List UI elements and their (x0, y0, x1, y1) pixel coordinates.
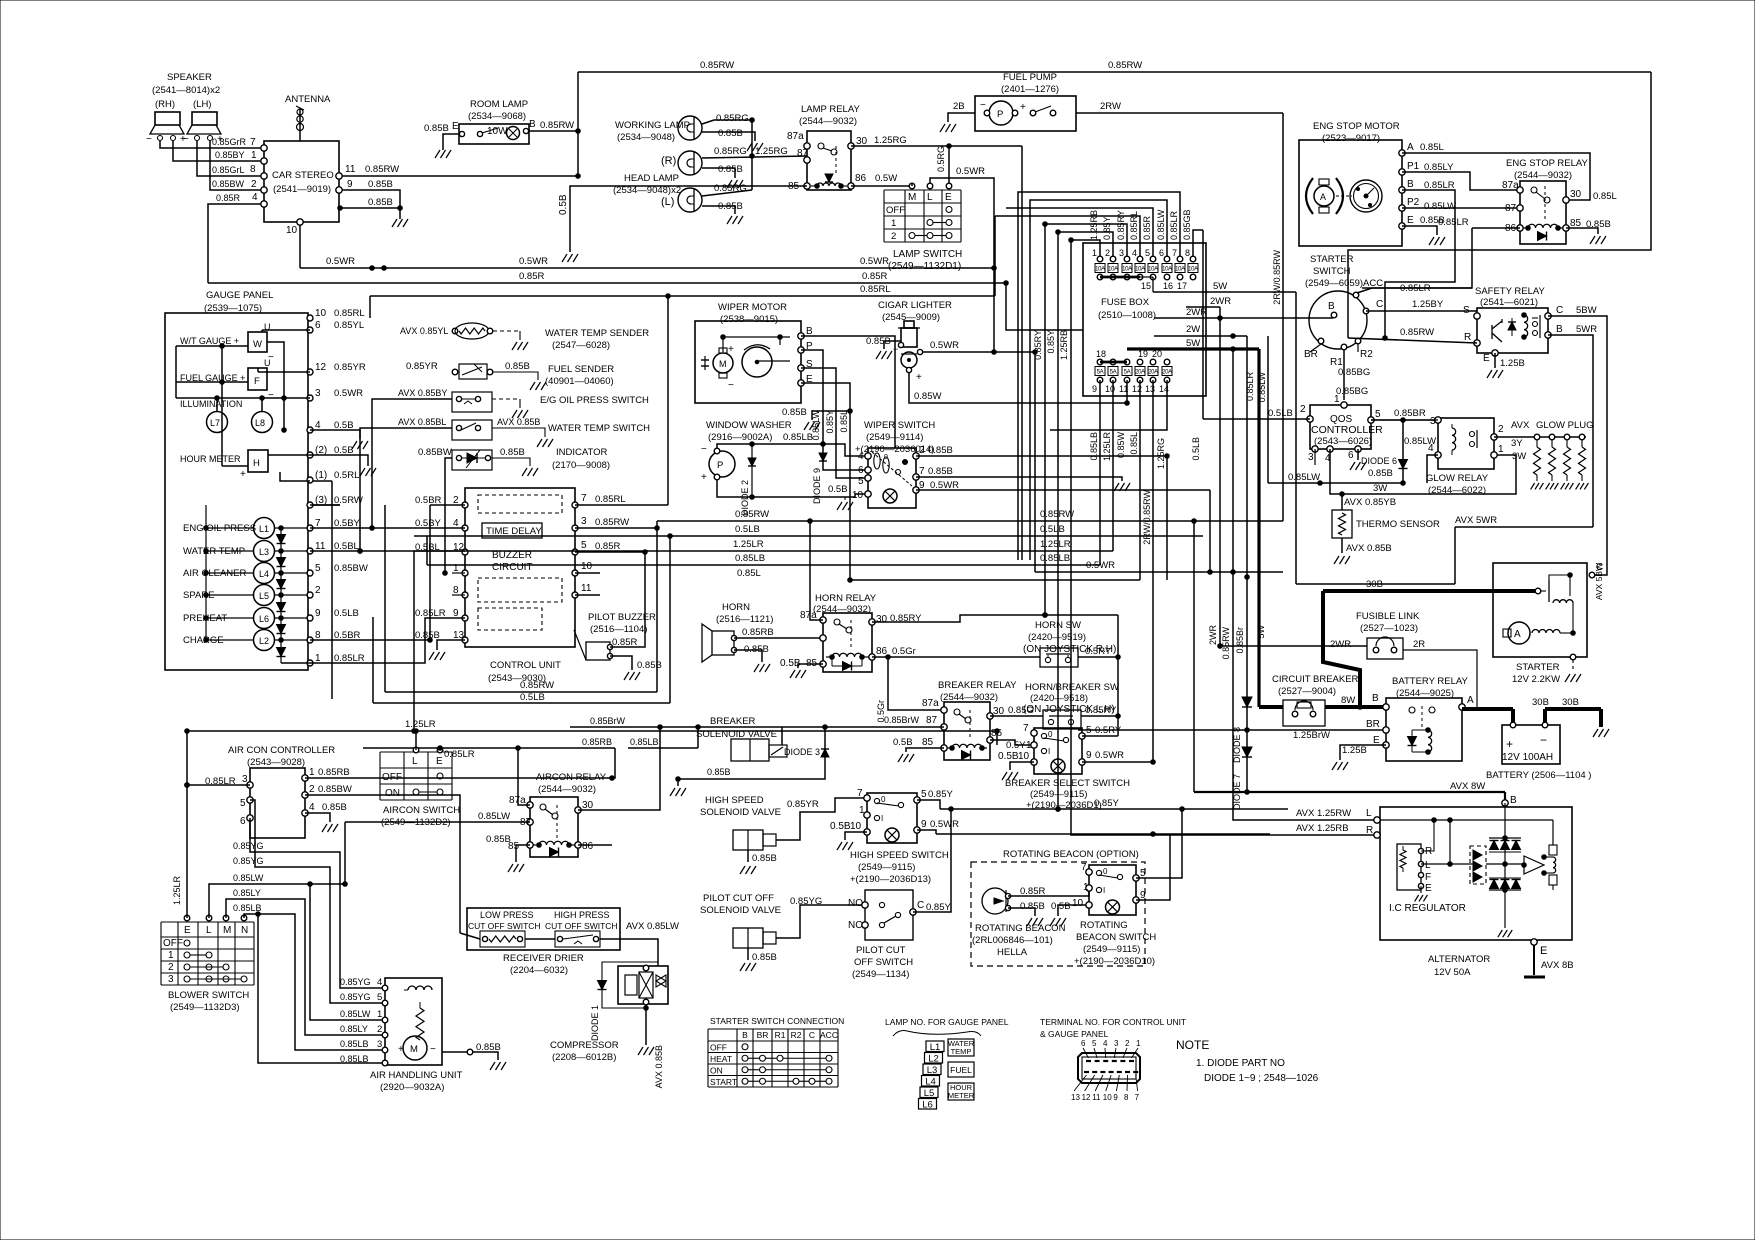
svg-text:(2541—6021): (2541—6021) (1480, 297, 1538, 308)
svg-text:0.85YL: 0.85YL (334, 320, 364, 331)
wire wiper sw 7 0.85B gnd (916, 477, 1130, 491)
svg-text:86: 86 (991, 728, 1003, 739)
svg-text:9: 9 (1092, 384, 1097, 394)
svg-text:0.85RG: 0.85RG (714, 183, 747, 194)
svg-text:0.85YR: 0.85YR (787, 799, 819, 810)
wire esm P1 0.85LY (1402, 172, 1520, 190)
svg-text:0.85RW: 0.85RW (365, 164, 399, 175)
svg-text:AVX: AVX (1511, 420, 1530, 431)
svg-text:−: − (430, 1044, 436, 1055)
svg-text:E: E (1425, 883, 1432, 894)
rotating beacon option box (971, 849, 1145, 966)
svg-text:C: C (917, 900, 924, 911)
svg-text:(2208—6012B): (2208—6012B) (552, 1052, 616, 1063)
svg-text:2B: 2B (953, 101, 965, 112)
qos controller U-qos (1310, 394, 1383, 449)
svg-text:M: M (908, 192, 916, 203)
svg-text:12: 12 (1082, 1093, 1091, 1102)
svg-text:2: 2 (315, 585, 321, 596)
svg-text:−: − (1540, 733, 1547, 747)
svg-text:0.85BY: 0.85BY (215, 150, 245, 160)
svg-text:5BW: 5BW (1576, 305, 1597, 316)
wire qos 3 stub (1314, 449, 1316, 465)
svg-text:9: 9 (921, 819, 927, 830)
wire vertical 2WR right (1208, 307, 1220, 646)
svg-text:L: L (1425, 860, 1431, 871)
svg-text:10W: 10W (487, 126, 508, 137)
ahu pins (340, 977, 388, 1066)
svg-text:(2544—9032): (2544—9032) (1514, 170, 1572, 181)
svg-text:0.85BW: 0.85BW (334, 563, 368, 574)
wire horn 0.85B gnd (734, 644, 770, 672)
svg-text:10A: 10A (1175, 267, 1185, 273)
svg-text:0.5B: 0.5B (828, 484, 848, 495)
svg-text:5: 5 (240, 798, 246, 809)
svg-text:0.85RW: 0.85RW (595, 517, 629, 528)
diode 7 (1232, 747, 1252, 810)
wire fuse9 out (1099, 380, 1101, 565)
svg-text:4: 4 (309, 802, 315, 813)
wire wiper P 0.85LW (801, 350, 868, 470)
svg-text:I.C REGULATOR: I.C REGULATOR (1389, 903, 1466, 914)
wire cigar 0.5WR (917, 340, 1035, 355)
wire blower N 0.85LB (233, 903, 385, 1050)
svg-text:30: 30 (1570, 189, 1582, 200)
svg-text:87: 87 (1505, 203, 1517, 214)
svg-text:11: 11 (581, 583, 592, 594)
wire oil press to L1 (370, 399, 452, 530)
svg-text:5WR: 5WR (1576, 324, 1597, 335)
control unit left pins (415, 495, 468, 643)
horn breaker sw U-hb-sw (1023, 682, 1119, 729)
rotating beacon captions (972, 920, 1156, 967)
wire high speed solenoid 0.85B gnd (740, 850, 777, 874)
svg-text:(2534—9048): (2534—9048) (617, 132, 675, 143)
wire AVX 8W (1192, 519, 1517, 807)
svg-text:AVX 0.85LW: AVX 0.85LW (626, 921, 679, 932)
svg-text:12V 2.2KW: 12V 2.2KW (1512, 674, 1560, 685)
wire 0.85R bus (208, 271, 1083, 330)
head lamp L (661, 188, 702, 212)
svg-text:B: B (742, 1030, 748, 1040)
alternator interior (1380, 803, 1557, 937)
wire fuse5 feed (1004, 208, 1153, 285)
svg-text:WINDOW WASHER: WINDOW WASHER (706, 420, 792, 431)
receiver drier U-drier (467, 908, 620, 950)
svg-text:−: − (980, 100, 986, 111)
svg-text:4: 4 (1132, 248, 1137, 258)
wire drier 0.85BW in (460, 933, 480, 939)
wire y748 line (363, 725, 1247, 760)
svg-text:10A: 10A (1095, 267, 1105, 273)
wire aircon 5 0.85YG (233, 800, 385, 1003)
wire breaker select 5 (1082, 735, 1118, 737)
svg-text:(2549—9114): (2549—9114) (866, 432, 923, 443)
wire vertical 0.85LW fuse right (1245, 336, 1268, 483)
svg-text:WIPER MOTOR: WIPER MOTOR (718, 302, 787, 313)
svg-text:HOUR METER: HOUR METER (180, 454, 241, 464)
svg-text:DIODE 9: DIODE 9 (812, 468, 822, 504)
svg-text:0: 0 (1048, 730, 1053, 739)
water temp switch (398, 417, 650, 447)
circuit breaker U-cb (1272, 674, 1359, 726)
svg-text:0.5LB: 0.5LB (1040, 524, 1065, 535)
lamp switch caption (888, 249, 962, 272)
svg-text:AVX 1.25RB: AVX 1.25RB (1296, 823, 1349, 834)
svg-text:0.85LB: 0.85LB (340, 1039, 369, 1049)
svg-text:2: 2 (1300, 404, 1306, 415)
svg-text:0.5B: 0.5B (998, 751, 1019, 762)
svg-text:85: 85 (922, 737, 934, 748)
alternator caption (1428, 954, 1490, 978)
wire room lamp B 0.85RW (529, 119, 578, 131)
battery relay U-batrelay (1366, 676, 1474, 761)
svg-text:L1: L1 (259, 524, 269, 534)
svg-text:0.85RL: 0.85RL (860, 284, 891, 295)
svg-text:0.85B: 0.85B (866, 336, 891, 347)
fuel sender (406, 361, 614, 390)
pilot cut off solenoid valve (700, 893, 781, 948)
svg-text:0.85RY: 0.85RY (1085, 705, 1117, 716)
svg-text:0.85YG: 0.85YG (340, 992, 371, 1002)
svg-text:10: 10 (1072, 898, 1084, 909)
svg-text:0.85BW: 0.85BW (212, 179, 245, 189)
wire esm P2 0.85LW (1402, 207, 1520, 209)
control unit U-control (465, 488, 575, 684)
svg-text:2: 2 (891, 231, 896, 242)
svg-text:0.85BW: 0.85BW (318, 784, 352, 795)
wire beacon 0.85R (1008, 886, 1089, 897)
svg-text:M: M (223, 925, 231, 936)
svg-text:AVX 0.85YB: AVX 0.85YB (1344, 497, 1396, 508)
blower switch caption (168, 990, 249, 1013)
wire fuse right 2WR starter B (1154, 307, 1333, 320)
wire esr 86 0.85LR (1362, 217, 1520, 288)
svg-text:10A: 10A (1188, 267, 1198, 273)
svg-text:0.5WR: 0.5WR (930, 819, 959, 830)
wire horn relay 30 0.85RY (872, 613, 1118, 736)
svg-text:1.25LR: 1.25LR (733, 539, 764, 550)
gauge panel U-gauge (165, 290, 308, 670)
wire qos 6 gnd (1350, 449, 1393, 479)
svg-text:DIODE 6: DIODE 6 (1361, 456, 1397, 466)
svg-text:BREAKER: BREAKER (710, 716, 756, 727)
svg-text:R: R (1464, 332, 1471, 343)
diode 2 (740, 444, 756, 516)
wire fuse2 feed (1056, 230, 1113, 256)
wire fuse4 feed (995, 216, 1140, 256)
wire vertical 1.25RB mid (1059, 238, 1377, 835)
svg-text:H: H (253, 458, 260, 469)
svg-text:0.5RY: 0.5RY (1085, 646, 1112, 657)
svg-text:SOLENOID VALVE: SOLENOID VALVE (696, 729, 777, 740)
svg-text:12V 100AH: 12V 100AH (1502, 752, 1553, 763)
svg-text:0.5WR: 0.5WR (1086, 560, 1115, 571)
svg-text:OFF: OFF (886, 205, 905, 216)
svg-text:L: L (1366, 808, 1372, 819)
wire beacon sw 5 (1136, 809, 1182, 878)
wire starter E dashed gnd (1565, 660, 1581, 682)
wire aircon relay 87a (518, 748, 530, 805)
svg-text:5A: 5A (1124, 370, 1131, 376)
svg-text:ON: ON (385, 788, 400, 799)
fuel gauge (180, 358, 274, 401)
svg-text:5: 5 (1145, 248, 1150, 258)
svg-text:ROOM LAMP: ROOM LAMP (470, 99, 528, 110)
wire bus 0.85L (737, 568, 1140, 582)
note (1176, 1038, 1319, 1084)
svg-text:STARTER: STARTER (1310, 254, 1354, 265)
svg-text:(2516—1104): (2516—1104) (590, 624, 647, 635)
svg-text:E: E (1407, 215, 1414, 226)
wire aircon 6 0.85YG (233, 818, 385, 988)
svg-text:0.85RW: 0.85RW (520, 680, 554, 691)
svg-text:0.85B: 0.85B (505, 361, 530, 372)
wire horn relay 85 gnd (790, 664, 823, 678)
svg-text:(L): (L) (661, 196, 674, 208)
svg-text:BEACON SWITCH: BEACON SWITCH (1076, 932, 1156, 943)
svg-text:2RW: 2RW (1100, 101, 1121, 112)
svg-text:3Y: 3Y (1511, 438, 1523, 449)
thermo sensor (1332, 494, 1440, 564)
compressor caption (550, 1040, 619, 1063)
wire speaker 0.85BY pin1 (173, 141, 267, 164)
wire fusible link right 2R (1403, 650, 1477, 709)
horn sw U-horn-sw (1023, 620, 1116, 667)
wire stereo 0.85B ground (338, 197, 408, 227)
svg-text:I: I (881, 814, 883, 823)
wire wiper B (801, 336, 895, 448)
svg-text:L3: L3 (927, 1065, 938, 1076)
svg-text:7: 7 (250, 137, 256, 148)
aircon controller pins (205, 767, 352, 827)
svg-text:0.85RW: 0.85RW (700, 60, 734, 71)
wire bus 1.25LR long (185, 719, 1000, 745)
svg-text:0.85YR: 0.85YR (334, 362, 366, 373)
wire beacon sw 9 (1136, 834, 1170, 900)
svg-text:INDICATOR: INDICATOR (556, 447, 608, 458)
wire breaker relay 87 0.85BrW (570, 715, 944, 727)
svg-text:AVX 0.85B: AVX 0.85B (654, 1045, 664, 1088)
wire horn 0.85RB (734, 627, 823, 638)
wire breaker relay 85 0.5B gnd (893, 737, 944, 762)
svg-text:0.85BrW: 0.85BrW (884, 715, 920, 725)
svg-text:(2RL006846—101): (2RL006846—101) (972, 935, 1053, 946)
svg-text:5W: 5W (1213, 281, 1227, 292)
svg-text:1: 1 (168, 950, 174, 961)
svg-text:0.85LR: 0.85LR (1438, 217, 1469, 228)
wire blower E 1.25LR (172, 731, 189, 918)
fusible link U-fl (1330, 611, 1425, 659)
wire AVX 5WR (1296, 515, 1593, 584)
svg-text:ALTERNATOR: ALTERNATOR (1428, 954, 1490, 965)
svg-text:TERMINAL NO. FOR CONTROL UNIT: TERMINAL NO. FOR CONTROL UNIT (1040, 1017, 1186, 1027)
svg-text:0.85B: 0.85B (718, 201, 743, 212)
svg-text:GAUGE PANEL: GAUGE PANEL (206, 290, 273, 301)
svg-text:2: 2 (1125, 1039, 1130, 1048)
svg-text:0.85B: 0.85B (424, 123, 449, 134)
wire fuel pump 2B gnd (940, 101, 975, 132)
svg-text:4: 4 (377, 977, 382, 988)
wire speaker 0.85GrL pin8 (197, 141, 267, 179)
svg-text:SWITCH: SWITCH (1313, 266, 1351, 277)
svg-text:RECEIVER DRIER: RECEIVER DRIER (503, 953, 584, 964)
svg-text:FUSE BOX: FUSE BOX (1101, 297, 1150, 308)
wire cigar 0.85W (909, 372, 1127, 403)
svg-text:13: 13 (1071, 1093, 1080, 1102)
wire speaker 0.85BW pin2 (210, 141, 267, 193)
svg-text:(2420—9518): (2420—9518) (1030, 693, 1088, 704)
svg-text:0.5WR: 0.5WR (956, 166, 985, 177)
svg-text:0.85LY: 0.85LY (340, 1024, 368, 1034)
wire aircon 2 0.85BW (305, 795, 460, 933)
svg-text:ROTATING BEACON (OPTION): ROTATING BEACON (OPTION) (1003, 849, 1139, 860)
control unit right pins (572, 493, 629, 598)
svg-text:0.85B: 0.85B (486, 834, 511, 845)
wire fuse10 out (1112, 380, 1114, 551)
svg-text:L5: L5 (259, 591, 269, 601)
wire fuse14 out (1050, 380, 1167, 430)
svg-text:PILOT CUT OFF: PILOT CUT OFF (703, 893, 774, 904)
svg-text:0.85LB: 0.85LB (630, 737, 659, 747)
svg-text:(2538—9015): (2538—9015) (720, 314, 778, 325)
svg-text:0.5LB: 0.5LB (1268, 408, 1293, 419)
svg-text:+: + (1506, 737, 1513, 751)
wire esm A 0.85L loop (1402, 153, 1617, 202)
wire horn relay 86 0.5Gr (872, 646, 1040, 659)
svg-text:TEMP: TEMP (951, 1047, 972, 1056)
svg-text:30: 30 (856, 136, 868, 147)
wire vertical 0.85RY mid (1033, 224, 1047, 617)
gauge lamp diode chain (277, 528, 311, 663)
svg-text:0.5B: 0.5B (893, 737, 913, 748)
svg-text:0.5LB: 0.5LB (334, 608, 359, 619)
svg-text:1: 1 (1083, 882, 1089, 893)
svg-text:0.5Gr: 0.5Gr (892, 646, 916, 657)
svg-text:GLOW PLUG: GLOW PLUG (1536, 420, 1594, 431)
svg-text:L8: L8 (255, 418, 265, 428)
lamp switch U-lamp-switch (884, 183, 961, 242)
svg-text:0.85B: 0.85B (782, 407, 807, 418)
svg-text:16: 16 (1163, 281, 1173, 291)
svg-text:0.5LB: 0.5LB (735, 524, 760, 535)
wire control 9 0.85LR (310, 618, 465, 663)
svg-text:0.85LB: 0.85LB (1040, 553, 1070, 564)
eng stop motor pins (1399, 142, 1456, 229)
svg-text:0.85RW: 0.85RW (1108, 60, 1142, 71)
svg-text:10: 10 (315, 308, 327, 319)
wire 30B thick starter (1323, 579, 1536, 707)
ahu caption (370, 1070, 463, 1093)
svg-text:3: 3 (1114, 1039, 1119, 1048)
svg-text:M: M (719, 359, 727, 369)
svg-text:6: 6 (1348, 450, 1354, 461)
svg-text:LAMP RELAY: LAMP RELAY (801, 104, 860, 115)
e/g oil press switch (398, 388, 649, 418)
svg-text:0.5WR: 0.5WR (519, 256, 548, 267)
wire 0.5WR bus (300, 256, 996, 354)
svg-text:N: N (241, 925, 248, 936)
svg-text:A: A (1514, 629, 1521, 640)
wire drier link (525, 938, 555, 940)
svg-text:DIODE 1: DIODE 1 (590, 1005, 600, 1041)
air handling unit U-ahu (385, 978, 442, 1065)
wire buzzer 0.85B gnd (610, 656, 662, 680)
svg-text:+: + (398, 1044, 404, 1055)
svg-text:87: 87 (926, 715, 938, 726)
wire hb sw 0.85RY (1081, 705, 1120, 718)
svg-text:AVX 1.25RW: AVX 1.25RW (1296, 808, 1351, 819)
svg-text:B: B (1556, 324, 1563, 335)
wire 0.85LB bottom (256, 912, 385, 1063)
wire washer plus 0.5B (717, 480, 868, 510)
svg-text:ROTATING: ROTATING (1080, 920, 1128, 931)
svg-text:11: 11 (1092, 1093, 1101, 1102)
wire qos diode6 (1361, 420, 1436, 485)
svg-text:1.25B: 1.25B (1500, 358, 1525, 369)
svg-text:CIGAR LIGHTER: CIGAR LIGHTER (878, 300, 952, 311)
wire control 12 row (310, 549, 465, 554)
wire safety R 0.85RW (1348, 327, 1477, 343)
antenna (285, 94, 331, 141)
svg-text:BATTERY (2506—1104 ): BATTERY (2506—1104 ) (1486, 770, 1591, 781)
svg-text:STARTER: STARTER (1516, 662, 1560, 673)
svg-text:BR: BR (757, 1030, 769, 1040)
svg-text:OFF SWITCH: OFF SWITCH (854, 957, 913, 968)
svg-text:CUT OFF SWITCH: CUT OFF SWITCH (468, 921, 541, 931)
svg-text:7: 7 (1135, 1093, 1140, 1102)
svg-text:0.5WR: 0.5WR (326, 256, 355, 267)
svg-text:2: 2 (251, 179, 257, 190)
svg-text:20A: 20A (1135, 370, 1145, 376)
svg-text:9: 9 (1086, 750, 1092, 761)
svg-text:E: E (436, 756, 443, 767)
svg-text:5A: 5A (1097, 370, 1104, 376)
fuse box U-fusebox (1083, 243, 1206, 396)
svg-text:0.85W: 0.85W (914, 391, 941, 402)
svg-text:0.85LB: 0.85LB (735, 553, 765, 564)
starter caption (1512, 662, 1560, 685)
svg-text:3: 3 (242, 774, 248, 785)
svg-text:R1: R1 (775, 1030, 786, 1040)
svg-text:3: 3 (1308, 452, 1314, 463)
svg-text:I: I (1103, 886, 1105, 895)
wire fuse right 2W (1154, 324, 1247, 338)
wire bus2 0.85RW (385, 505, 657, 692)
wire starter C vertical (0, 0, 1, 1)
fuses 9-14 (1092, 349, 1172, 394)
svg-text:CONTROL UNIT: CONTROL UNIT (490, 660, 561, 671)
svg-text:+: + (240, 469, 246, 480)
aircon switch caption (381, 805, 460, 828)
svg-text:E/G OIL PRESS SWITCH: E/G OIL PRESS SWITCH (540, 395, 649, 406)
svg-text:10: 10 (286, 225, 298, 236)
svg-text:R2: R2 (791, 1030, 802, 1040)
svg-text:COMPRESSOR: COMPRESSOR (550, 1040, 619, 1051)
wire lamp relay 30 1.25RG (851, 135, 1022, 560)
svg-text:0.5W: 0.5W (875, 173, 897, 184)
wire aircon relay 30 (578, 725, 662, 810)
svg-text:0.85Y: 0.85Y (1094, 798, 1119, 809)
wire qos 5 0.85BR (1371, 408, 1437, 427)
svg-text:P: P (997, 109, 1003, 120)
svg-text:LAMP SWITCH: LAMP SWITCH (893, 249, 962, 260)
wire fuse right 2WR upper (1186, 296, 1231, 307)
ic regulator (1389, 844, 1466, 914)
svg-text:CIRCUIT: CIRCUIT (492, 562, 533, 573)
svg-text:0.5B: 0.5B (1051, 901, 1071, 912)
svg-text:AVX 8W: AVX 8W (1450, 781, 1485, 792)
